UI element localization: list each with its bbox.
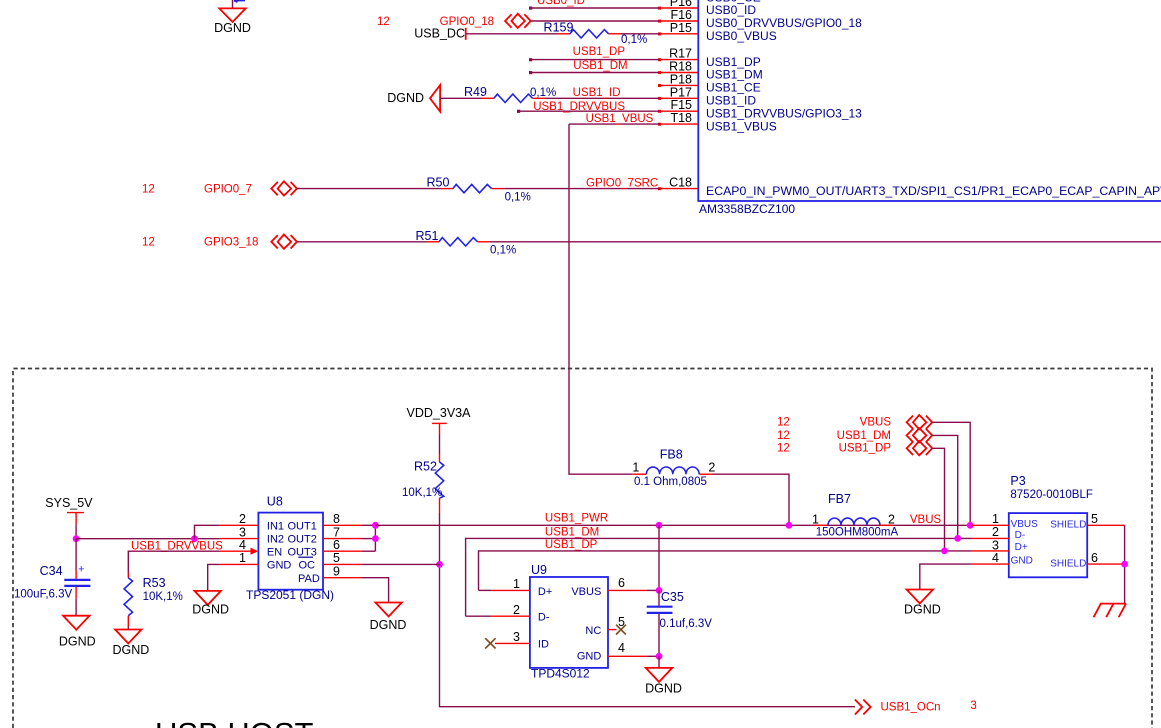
ground DGND (left of R49) [387, 85, 440, 111]
svg-text:0,1%: 0,1% [490, 245, 516, 257]
svg-text:USB0_DRVVBUS/GPIO0_18: USB0_DRVVBUS/GPIO0_18 [706, 16, 862, 30]
svg-text:USB1_VBUS: USB1_VBUS [586, 113, 654, 125]
svg-text:10K,1%: 10K,1% [143, 591, 183, 603]
svg-text:R50: R50 [427, 175, 450, 189]
svg-text:12: 12 [777, 430, 790, 442]
svg-text:5: 5 [1091, 512, 1098, 526]
wire U8 OC to R52 junction [362, 563, 440, 565]
svg-text:USB1_ID: USB1_ID [706, 94, 756, 108]
svg-text:AM3358BZCZ100: AM3358BZCZ100 [699, 202, 795, 216]
svg-text:+: + [78, 564, 84, 576]
svg-text:SYS_5V: SYS_5V [45, 496, 93, 510]
pin F15 USB1_DRVVBUS [658, 98, 862, 120]
svg-text:12: 12 [777, 417, 790, 429]
svg-text:IN1: IN1 [267, 520, 284, 532]
wire USB1_DP connector down to rail [932, 448, 944, 551]
svg-text:5: 5 [333, 551, 340, 565]
ground DGND under C35 [645, 668, 682, 696]
P3 pin 3 D+ [972, 538, 1028, 553]
pin R18 USB1_DM [658, 60, 763, 82]
svg-text:C35: C35 [661, 590, 684, 604]
svg-text:0,1%: 0,1% [505, 192, 531, 204]
wire P3 GND to ground [920, 564, 972, 589]
ground DGND under U8 GND [192, 591, 229, 616]
svg-text:VBUS: VBUS [571, 586, 601, 598]
svg-text:4: 4 [992, 551, 999, 565]
wire C35 to ground [658, 656, 660, 668]
svg-text:SHIELD: SHIELD [1050, 520, 1086, 531]
svg-text:FB7: FB7 [828, 492, 851, 506]
svg-text:R159: R159 [544, 20, 574, 34]
IC U9 TPD4S012 body [530, 577, 608, 668]
ferrite bead FB8 [632, 447, 715, 488]
ground DGND top-left [214, 0, 251, 35]
svg-text:VDD_3V3A: VDD_3V3A [407, 406, 472, 420]
svg-text:R18: R18 [669, 60, 692, 74]
svg-text:USB1_DM: USB1_DM [573, 60, 627, 72]
power symbol VDD_3V3A [407, 406, 472, 435]
wire SYS_5V down to junction [75, 524, 77, 538]
pin P16 USB0_ID [658, 0, 756, 17]
svg-text:12: 12 [777, 443, 790, 455]
svg-text:USB1_DP: USB1_DP [545, 539, 598, 551]
svg-text:0.1 Ohm,0805: 0.1 Ohm,0805 [634, 476, 707, 488]
svg-text:FB8: FB8 [660, 447, 683, 461]
svg-text:DGND: DGND [904, 603, 941, 617]
U8 pin 6 OUT3 [288, 538, 362, 558]
svg-text:0,1%: 0,1% [530, 87, 556, 99]
wire C34 to ground [75, 599, 77, 616]
wire USB1_VBUS vertical down to FB8 row [569, 124, 632, 474]
pin R17 USB1_DP [658, 47, 761, 69]
junction OUT1 [372, 522, 379, 529]
wire VBUS connector down to rail [932, 422, 970, 525]
svg-text:P18: P18 [670, 72, 692, 86]
svg-text:GND: GND [577, 651, 602, 663]
ground DGND under P3 GND [904, 590, 941, 617]
svg-text:R17: R17 [669, 47, 692, 61]
wire U8 GND to ground [208, 564, 220, 591]
svg-text:P15: P15 [670, 21, 692, 35]
svg-text:IN2: IN2 [267, 534, 284, 546]
pin P15 USB0_VBUS [658, 21, 777, 43]
resistor R52 [402, 454, 444, 513]
U9 pin 1 D+ [479, 577, 553, 598]
svg-text:GPIO0_7: GPIO0_7 [204, 183, 252, 195]
junction VBUS vertical [967, 522, 974, 529]
svg-text:R49: R49 [464, 85, 487, 99]
off-page connector VBUS [907, 415, 933, 429]
svg-text:1: 1 [513, 577, 520, 591]
svg-text:VBUS: VBUS [860, 417, 892, 429]
svg-text:DGND: DGND [59, 635, 96, 649]
svg-text:GND: GND [267, 560, 292, 572]
wire net USB0_ID [529, 7, 660, 10]
svg-text:2: 2 [888, 513, 895, 527]
resistor R159 [544, 20, 648, 46]
svg-text:2: 2 [992, 525, 999, 539]
svg-text:R51: R51 [416, 229, 439, 243]
junction FB8/USB1_PWR [786, 522, 793, 529]
junction C35 bottom [656, 653, 663, 660]
svg-text:DGND: DGND [645, 682, 682, 696]
svg-text:12: 12 [377, 16, 390, 28]
pin P17 USB1_ID [658, 85, 756, 107]
svg-text:12: 12 [142, 183, 155, 195]
svg-text:R52: R52 [414, 459, 437, 473]
wire VDD_3V3A to R52 [439, 435, 441, 455]
svg-text:USB1_DRVVBUS: USB1_DRVVBUS [533, 101, 625, 113]
svg-text:5: 5 [618, 615, 625, 629]
junction R52/OC [436, 561, 443, 568]
U8 pin 8 OUT1 [288, 512, 362, 532]
pin T18 USB1_VBUS [658, 111, 777, 133]
wire R159 to pin P15 [621, 33, 660, 35]
junction OUT2 [372, 535, 379, 542]
svg-text:USB0_ID: USB0_ID [706, 3, 756, 17]
wire net USB1_VBUS horizontal [569, 123, 660, 125]
P3 pin 2 D- [972, 525, 1025, 541]
ground DGND under C34 [59, 616, 96, 649]
cut-off blue component mark top-left [234, 1, 245, 3]
svg-text:4: 4 [239, 538, 246, 552]
svg-text:OC: OC [299, 560, 316, 572]
resistor R51 [416, 229, 517, 257]
junction U8 IN1 branch [191, 535, 198, 542]
wire U8 PAD to ground [362, 578, 389, 603]
svg-text:USB1_OCn: USB1_OCn [881, 702, 941, 714]
wire SYS_5V rail to U8 IN2 [76, 538, 220, 540]
resistor R49 [464, 85, 556, 103]
svg-text:OUT1: OUT1 [288, 520, 317, 532]
svg-text:9: 9 [333, 565, 340, 579]
dashed section border [13, 369, 1152, 728]
wire USB1_PWR down to U9 VBUS row [658, 525, 660, 590]
svg-text:2: 2 [239, 512, 246, 526]
wire branch up to U8 IN1 [195, 525, 220, 538]
svg-text:USB1_DP: USB1_DP [839, 443, 892, 455]
off-page connector GPIO0_7 [271, 181, 297, 195]
svg-text:ECAP0_IN_PWM0_OUT/UART3_TXD/SP: ECAP0_IN_PWM0_OUT/UART3_TXD/SPI1_CS1/PR1… [706, 184, 1161, 198]
wire net USB1_DM rail [466, 538, 972, 616]
svg-text:6: 6 [333, 538, 340, 552]
svg-text:GND: GND [1011, 556, 1033, 567]
svg-text:DGND: DGND [112, 643, 149, 657]
svg-text:SHIELD: SHIELD [1050, 559, 1086, 570]
svg-text:3: 3 [513, 630, 520, 644]
off-page arrow USB1_OCn [855, 700, 871, 715]
P3 pin 1 VBUS [972, 512, 1038, 530]
wire net USB1_DP [529, 58, 660, 61]
svg-text:USB1_DM: USB1_DM [706, 68, 763, 82]
wire USB1_DM connector down to rail [932, 435, 958, 538]
P3 pin 6 SHIELD [1050, 551, 1124, 570]
wire net USB1_PWR rail [375, 524, 972, 526]
svg-text:150OHM800mA: 150OHM800mA [816, 527, 899, 539]
svg-text:USB1_ID: USB1_ID [573, 87, 621, 99]
U9 pin 3 ID with no-connect X [485, 630, 549, 650]
connector P3 body [1009, 513, 1087, 577]
junction USB1_PWR to C35 branch [656, 522, 663, 529]
svg-text:D-: D- [538, 611, 550, 623]
svg-text:0,1%: 0,1% [621, 34, 647, 46]
U8 pin 4 EN [239, 538, 282, 558]
svg-text:USB1_DRVVBUS/GPIO3_13: USB1_DRVVBUS/GPIO3_13 [706, 106, 862, 120]
svg-text:VBUS: VBUS [1011, 519, 1039, 530]
U8 pin 3 IN2 [220, 525, 284, 545]
wire R49 to pin P17 [545, 97, 660, 99]
svg-text:GPIO0_7SRC: GPIO0_7SRC [586, 177, 658, 189]
svg-text:DGND: DGND [192, 602, 229, 616]
P3 pin 5 SHIELD [1050, 512, 1124, 531]
svg-text:6: 6 [618, 576, 625, 590]
svg-text:C18: C18 [669, 175, 692, 189]
svg-text:10K,1%: 10K,1% [402, 487, 442, 499]
junction C35 top [656, 587, 663, 594]
svg-text:USB1_CE: USB1_CE [706, 81, 761, 95]
svg-text:P17: P17 [670, 85, 692, 99]
svg-text:4: 4 [618, 641, 625, 655]
resistor R53 [124, 573, 183, 627]
P3 pin 4 GND [972, 551, 1033, 567]
svg-text:USB1_VBUS: USB1_VBUS [706, 119, 777, 133]
page refs 12 x3 [777, 417, 790, 455]
svg-text:GPIO3_18: GPIO3_18 [204, 237, 258, 249]
svg-text:ID: ID [538, 639, 549, 651]
svg-text:1: 1 [812, 513, 819, 527]
svg-text:2: 2 [513, 603, 520, 617]
junction USB1_DM vertical [954, 535, 961, 542]
U8 pin 2 IN1 [220, 512, 284, 532]
wire FB8 to USB1_PWR rail [713, 474, 789, 525]
svg-text:VBUS: VBUS [910, 514, 942, 526]
svg-text:F15: F15 [670, 98, 692, 112]
svg-text:USB1_DP: USB1_DP [573, 46, 626, 58]
svg-text:USB1_DM: USB1_DM [837, 430, 891, 442]
chassis ground [1094, 604, 1126, 618]
svg-text:EN: EN [267, 546, 282, 558]
svg-text:1: 1 [992, 512, 999, 526]
U9 pin 5 NC with no-connect X [585, 615, 625, 637]
svg-text:USB_DC: USB_DC [414, 27, 465, 41]
svg-text:USB0_VBUS: USB0_VBUS [706, 29, 777, 43]
netflow arrow into EN pin [251, 548, 259, 555]
svg-text:U9: U9 [531, 563, 547, 577]
pin P18 USB1_CE [658, 72, 761, 94]
wire GPIO0_18 to pin F16 [531, 20, 660, 22]
wire R50 to pin C18 [505, 188, 660, 190]
wire GPIO3_18 to R51 [297, 241, 427, 243]
svg-text:F16: F16 [670, 8, 692, 22]
wire GPIO0_7 to R50 [297, 188, 441, 190]
svg-text:6: 6 [1091, 551, 1098, 565]
U8 pin 9 PAD [298, 565, 362, 585]
svg-text:D+: D+ [538, 586, 552, 598]
svg-text:2: 2 [708, 461, 715, 475]
svg-text:TPS2051 (DGN): TPS2051 (DGN) [246, 588, 334, 602]
svg-text:USB1_PWR: USB1_PWR [545, 512, 608, 524]
svg-text:12: 12 [142, 237, 155, 249]
svg-text:C34: C34 [40, 564, 63, 578]
capacitor C34 [14, 564, 90, 601]
svg-text:D-: D- [1015, 530, 1026, 541]
svg-text:1: 1 [632, 461, 639, 475]
wire SYS_5V down to C34 [75, 539, 77, 570]
wire R53 to ground [127, 626, 129, 629]
svg-text:OUT2: OUT2 [288, 534, 317, 546]
U8 pin 5 OC [298, 551, 361, 571]
junction SHIELD [1121, 561, 1128, 568]
svg-text:TPD4S012: TPD4S012 [531, 667, 590, 681]
wire R51 to right edge [490, 241, 1161, 243]
svg-text:8: 8 [333, 512, 340, 526]
junction USB1_DP vertical [941, 548, 948, 555]
off-page connector GPIO3_18 [271, 235, 297, 249]
svg-text:DGND: DGND [214, 21, 251, 35]
wire USB_DC to R159 [466, 33, 557, 35]
off-page connector USB1_DP [907, 441, 933, 455]
off-page connector USB1_DM [907, 428, 933, 442]
U9 pin 2 D- [466, 603, 550, 623]
ground DGND under R53 [112, 630, 149, 658]
wire OUT1/OUT2/OUT3 tie [362, 525, 376, 551]
U8 pin 1 GND [220, 551, 292, 571]
svg-text:R53: R53 [143, 576, 166, 590]
svg-text:USB HOST: USB HOST [155, 716, 314, 728]
svg-text:USB1_DM: USB1_DM [545, 526, 599, 538]
svg-text:100uF,6.3V: 100uF,6.3V [14, 589, 73, 601]
wire SHIELD tie [1124, 525, 1126, 603]
svg-text:DGND: DGND [370, 618, 407, 632]
pin F16 USB0_DRVVBUS [658, 8, 862, 30]
svg-text:PAD: PAD [298, 573, 320, 585]
svg-text:U8: U8 [267, 495, 283, 509]
U9 pin 6 VBUS [571, 576, 659, 598]
net stub USB_DC tick [465, 28, 467, 40]
power symbol SYS_5V [45, 496, 93, 524]
svg-text:T18: T18 [670, 111, 692, 125]
resistor R50 [427, 175, 531, 203]
wire net USB1_DP rail [479, 551, 972, 591]
svg-text:DGND: DGND [387, 91, 424, 105]
IC U16 AM3358 processor body [698, 0, 1161, 201]
wire DGND to R49 [440, 97, 481, 99]
wire R52 to OC junction and down to USB1_OCn run [440, 513, 855, 707]
U8 pin 7 OUT2 [288, 525, 362, 545]
ground DGND under U8 PAD [370, 603, 407, 633]
svg-text:USB0_ID: USB0_ID [537, 0, 585, 7]
svg-text:USB1_DP: USB1_DP [706, 55, 761, 69]
pin C18 ECAP0 [658, 175, 1161, 198]
svg-text:1: 1 [239, 551, 246, 565]
ferrite bead FB7 [812, 492, 898, 539]
junction SYS_5V node [73, 535, 80, 542]
svg-text:D+: D+ [1015, 542, 1028, 553]
svg-text:87520-0010BLF: 87520-0010BLF [1010, 489, 1092, 501]
off-page connector GPIO0_18 [505, 14, 531, 28]
svg-text:0.1uf,6.3V: 0.1uf,6.3V [660, 618, 713, 630]
U9 pin 4 GND [577, 641, 659, 663]
svg-text:NC: NC [585, 625, 601, 637]
wire net USB1_DRVVBUS [517, 110, 660, 113]
capacitor C35 [647, 590, 713, 656]
wire USB1_DRVVBUS to U8 EN [128, 551, 250, 572]
wire net USB1_DM [529, 71, 660, 74]
IC U8 TPS2051 body [258, 513, 323, 590]
svg-text:P3: P3 [1010, 474, 1025, 488]
svg-text:3: 3 [970, 700, 976, 712]
